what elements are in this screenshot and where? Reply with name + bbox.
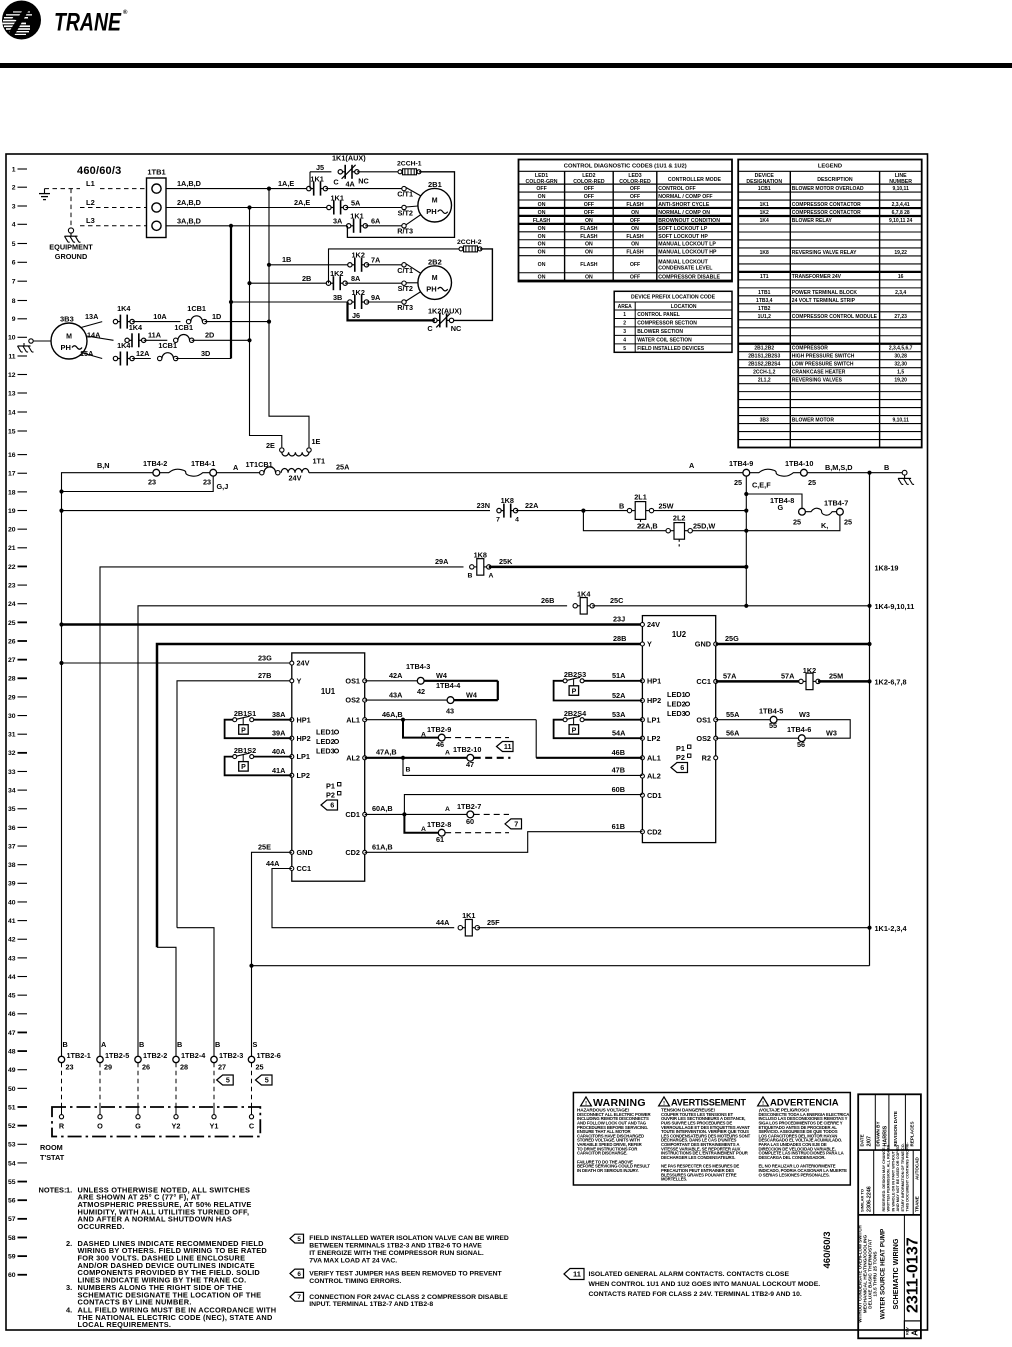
svg-text:9,10,11: 9,10,11: [892, 418, 909, 424]
junction 25M rail: [867, 679, 871, 683]
svg-text:2E: 2E: [266, 441, 275, 450]
motor 3B3 lead diagonals: [81, 322, 114, 359]
svg-text:61B: 61B: [612, 822, 625, 831]
wire 56A OS2: [716, 737, 799, 739]
svg-text:22A: 22A: [525, 501, 539, 510]
svg-text:B,M,S,D: B,M,S,D: [825, 463, 853, 472]
wire 38A: [254, 719, 292, 721]
svg-text:4: 4: [12, 222, 16, 229]
table: control diagnostic codes: [519, 160, 733, 282]
svg-text:26: 26: [8, 638, 16, 645]
contactor contact 1K1 line4: [347, 212, 368, 233]
junction 23G rail: [59, 661, 63, 665]
svg-text:29: 29: [104, 1063, 112, 1072]
svg-text:1TB2-2: 1TB2-2: [143, 1051, 167, 1060]
svg-text:5A: 5A: [351, 199, 361, 208]
svg-text:1TB4-2: 1TB4-2: [143, 459, 167, 468]
svg-text:1K1: 1K1: [310, 175, 323, 184]
svg-text:LOW PRESSURE SWITCH: LOW PRESSURE SWITCH: [792, 362, 854, 368]
terminal 1TB2-10: [453, 745, 481, 769]
pressure switch 2B2S4: [563, 709, 587, 734]
junction line3 phase B: [247, 205, 251, 209]
svg-text:B: B: [619, 502, 624, 511]
terminal block 1TB1: [147, 168, 167, 238]
svg-text:T'STAT: T'STAT: [40, 1153, 65, 1162]
svg-text:1E: 1E: [312, 437, 321, 446]
junction 25F right rail: [867, 926, 871, 930]
wire CD1 drop to 1TB2-8 row: [404, 814, 438, 832]
wire W4 loop vertical: [497, 681, 499, 700]
svg-text:SOFT LOCKOUT HP: SOFT LOCKOUT HP: [658, 234, 708, 240]
svg-text:2CCH-1,2: 2CCH-1,2: [753, 370, 775, 376]
svg-text:25: 25: [793, 518, 801, 527]
wire 23N: [62, 510, 491, 512]
svg-text:47B: 47B: [612, 766, 625, 775]
svg-text:1TB2-8: 1TB2-8: [427, 820, 451, 829]
svg-text:1K8: 1K8: [474, 551, 487, 560]
svg-text:45: 45: [8, 993, 16, 1000]
controller 1U2 terminals: [640, 620, 717, 836]
svg-text:1U2: 1U2: [672, 630, 687, 639]
svg-text:G: G: [135, 1122, 141, 1131]
svg-text:HP2: HP2: [647, 696, 661, 705]
svg-text:27: 27: [218, 1063, 226, 1072]
svg-text:REPLACES: REPLACES: [910, 1121, 915, 1146]
svg-text:TRANE: TRANE: [915, 1196, 920, 1212]
svg-text:FIELD INSTALLED DEVICES: FIELD INSTALLED DEVICES: [637, 346, 705, 352]
svg-text:52A: 52A: [612, 691, 626, 700]
svg-text:L3: L3: [86, 216, 95, 225]
svg-text:WHEN CONTROL 1U1 AND 1U2 GOES: WHEN CONTROL 1U1 AND 1U2 GOES INTO MANUA…: [589, 1281, 821, 1288]
svg-text:1,5: 1,5: [897, 370, 904, 376]
svg-text:2: 2: [623, 321, 626, 327]
svg-text:IN DEATH OR SERIOUS INJURY.: IN DEATH OR SERIOUS INJURY.: [577, 1168, 639, 1173]
motor 2B2 lead diagonals: [406, 264, 421, 301]
svg-text:COMPRESSOR: COMPRESSOR: [792, 346, 829, 352]
svg-text:A: A: [421, 826, 426, 833]
svg-text:BLOWER MOTOR OVERLOAD: BLOWER MOTOR OVERLOAD: [792, 186, 864, 192]
dashed field wire 1TB2-10 thick: [474, 757, 511, 759]
svg-text:51: 51: [8, 1104, 16, 1111]
motor 2B2: [418, 257, 452, 299]
wire 55A OS1: [716, 719, 771, 721]
terminal 1TB4-7: [824, 499, 852, 527]
pennant 7: [505, 819, 522, 829]
svg-text:1K4: 1K4: [760, 218, 769, 224]
junction 25G rail: [867, 642, 871, 646]
svg-text:!: !: [762, 1101, 764, 1107]
svg-text:1CB1: 1CB1: [758, 186, 771, 192]
junction right rail top: [867, 471, 871, 475]
svg-text:1TB4-1: 1TB4-1: [191, 459, 215, 468]
svg-text:NORMAL / COMP OFF: NORMAL / COMP OFF: [658, 194, 712, 200]
svg-text:25K: 25K: [499, 557, 513, 566]
terminal 1TB2-1: [58, 1040, 91, 1072]
svg-text:9A: 9A: [371, 293, 381, 302]
wire 1E drop: [269, 322, 309, 448]
svg-text:1TB2-3: 1TB2-3: [219, 1051, 243, 1060]
svg-text:2CCH-1: 2CCH-1: [397, 160, 422, 167]
svg-text:1K2(AUX): 1K2(AUX): [428, 306, 462, 315]
svg-text:CD1: CD1: [345, 810, 360, 819]
pressure switch 2B2S3: [563, 670, 586, 695]
svg-text:AND MAY NOT BE USED OR COPIED: AND MAY NOT BE USED OR COPIED: [896, 1145, 900, 1212]
svg-text:51A: 51A: [612, 671, 626, 680]
svg-text:7VA MAX LOAD AT 24 VAC.: 7VA MAX LOAD AT 24 VAC.: [309, 1257, 397, 1264]
svg-text:DRAWN BY: DRAWN BY: [876, 1121, 881, 1146]
svg-text:38: 38: [8, 862, 16, 869]
junction rail line18: [59, 489, 63, 493]
svg-text:CONTROL PANEL: CONTROL PANEL: [637, 312, 680, 318]
svg-text:2B1,2B2: 2B1,2B2: [754, 346, 774, 352]
phase riser C x231 thick: [230, 226, 232, 359]
svg-text:P: P: [572, 688, 577, 695]
terminal 1TB2-7: [457, 802, 481, 826]
wire 53A: [584, 719, 642, 721]
svg-text:25W: 25W: [659, 502, 674, 511]
svg-text:HP1: HP1: [297, 715, 311, 724]
svg-text:1TB2-10: 1TB2-10: [453, 745, 481, 754]
svg-text:1TB4-5: 1TB4-5: [759, 706, 783, 715]
pennant 6 in 1U2: [671, 763, 688, 773]
svg-text:GROUND: GROUND: [55, 252, 87, 261]
svg-text:2B2S4: 2B2S4: [564, 709, 587, 718]
wire 10A: [132, 321, 180, 323]
svg-text:46A,B: 46A,B: [382, 710, 403, 719]
svg-text:K,: K,: [821, 521, 828, 530]
svg-text:29: 29: [8, 694, 16, 701]
terminal 1TB4-1: [191, 459, 217, 486]
svg-text:GND: GND: [297, 848, 313, 857]
svg-text:R: R: [59, 1122, 65, 1131]
svg-text:30,28: 30,28: [894, 354, 907, 360]
phase riser B x249.5: [249, 208, 251, 341]
wire 7A to C/T1 2B2: [367, 264, 405, 266]
svg-text:16: 16: [8, 452, 16, 459]
contactor contact 1K1 line2: [307, 175, 328, 196]
svg-text:58: 58: [8, 1235, 16, 1242]
svg-text:1T1CB1: 1T1CB1: [246, 460, 273, 469]
wire L3 dashed: [80, 225, 146, 227]
terminal 1TB4-3: [406, 662, 430, 696]
svg-text:55: 55: [8, 1179, 16, 1186]
svg-text:BETWEEN TERMINALS 1TB2-3 AND 1: BETWEEN TERMINALS 1TB2-3 AND 1TB2-6 TO H…: [309, 1243, 482, 1250]
relay contact 1K4 line11: [113, 341, 134, 366]
svg-text:TRANE: TRANE: [54, 9, 122, 37]
wire W3 55: [777, 720, 850, 739]
svg-text:33: 33: [8, 769, 16, 776]
wire 8A to S/T2 2B2: [345, 282, 404, 284]
svg-text:20: 20: [8, 527, 16, 534]
pennant 11: [497, 742, 514, 752]
pressure switch 2B1S1: [233, 709, 256, 734]
svg-text:OCCURRED.: OCCURRED.: [78, 1222, 125, 1231]
terminal 1TB2-4: [173, 1040, 206, 1072]
svg-text:2B1S1: 2B1S1: [234, 709, 256, 718]
svg-text:28: 28: [180, 1063, 188, 1072]
crankcase heater 2CCH-1: [397, 160, 422, 175]
svg-text:5: 5: [226, 1076, 230, 1085]
wire heater to 2B1 loop right: [347, 172, 454, 238]
wire 23J thick: [62, 623, 643, 626]
svg-text:24: 24: [8, 601, 16, 608]
svg-text:43: 43: [446, 706, 454, 715]
svg-text:9,10,11: 9,10,11: [892, 186, 909, 192]
junction 23J rail: [59, 622, 63, 626]
svg-text:2L2: 2L2: [673, 514, 686, 523]
svg-text:AL2: AL2: [647, 772, 661, 781]
wire L2 dashed: [80, 207, 146, 209]
svg-text:1: 1: [12, 166, 16, 173]
svg-text:1TB2-4: 1TB2-4: [181, 1051, 206, 1060]
svg-text:WATER COIL SECTION: WATER COIL SECTION: [637, 338, 692, 344]
svg-text:OS1: OS1: [345, 676, 360, 685]
contactor contact 1K2 line8: [348, 288, 369, 309]
svg-text:C,E,F: C,E,F: [752, 481, 771, 490]
terminal 1TB2-3: [211, 1040, 244, 1072]
svg-text:A: A: [421, 732, 426, 739]
svg-text:7A: 7A: [371, 256, 381, 265]
wire W4 thick 43: [454, 699, 498, 701]
svg-text:CONTROL OFF: CONTROL OFF: [658, 186, 695, 192]
svg-text:A: A: [689, 461, 695, 470]
wire 1TB4-7 return: [746, 515, 840, 531]
svg-text:7: 7: [12, 279, 16, 286]
svg-text:1D: 1D: [212, 312, 221, 321]
wire 2D: [192, 339, 250, 341]
svg-text:PH: PH: [426, 285, 436, 294]
svg-text:25: 25: [256, 1063, 264, 1072]
svg-text:MANUAL LOCKOUT HP: MANUAL LOCKOUT HP: [658, 250, 717, 256]
svg-text:LP1: LP1: [297, 752, 310, 761]
svg-text:O SERIAS LESIONES PERSONALES.: O SERIAS LESIONES PERSONALES.: [759, 1172, 830, 1177]
svg-text:1K1: 1K1: [331, 193, 344, 202]
svg-text:5: 5: [623, 346, 626, 352]
svg-text:22A,B: 22A,B: [637, 521, 658, 530]
svg-text:3A: 3A: [333, 216, 343, 225]
wire line17 right to ground: [807, 472, 904, 474]
svg-text:25: 25: [844, 518, 852, 527]
svg-text:CD2: CD2: [647, 827, 662, 836]
svg-text:54: 54: [8, 1160, 16, 1167]
coil 1K4: [573, 589, 594, 614]
coil 2L1: [627, 493, 653, 527]
svg-text:P2: P2: [326, 791, 335, 800]
svg-text:DECHARGER LES CONDENSATEURS.: DECHARGER LES CONDENSATEURS.: [661, 1155, 735, 1160]
svg-text:M: M: [432, 198, 438, 205]
wire 25D,W: [692, 530, 746, 532]
junction 2B tap: [247, 281, 251, 285]
svg-text:2B1S2,2B2S4: 2B1S2,2B2S4: [748, 362, 780, 368]
svg-text:53: 53: [8, 1142, 16, 1149]
svg-text:60: 60: [466, 817, 474, 826]
svg-text:CONNECTION FOR 24VAC CLASS 2 C: CONNECTION FOR 24VAC CLASS 2 COMPRESSOR …: [309, 1294, 508, 1301]
svg-text:1K8-19: 1K8-19: [875, 564, 899, 573]
svg-text:HIGH PRESSURE SWITCH: HIGH PRESSURE SWITCH: [792, 354, 855, 360]
svg-text:OFF: OFF: [630, 262, 640, 268]
wire line3 2A,B,D: [166, 207, 329, 209]
thermostat terminals R O G Y2 Y1 C: [59, 1107, 255, 1131]
svg-text:BLOWER RELAY: BLOWER RELAY: [792, 218, 833, 224]
svg-text:25: 25: [8, 620, 16, 627]
svg-text:B: B: [468, 573, 473, 580]
svg-text:P: P: [241, 764, 246, 771]
svg-text:C: C: [333, 178, 339, 187]
svg-text:11: 11: [573, 1270, 581, 1279]
pressure switch 2B1S2: [233, 746, 256, 771]
svg-text:56: 56: [797, 740, 805, 749]
svg-text:1TB4-10: 1TB4-10: [785, 459, 813, 468]
svg-text:S/T2: S/T2: [398, 284, 413, 293]
svg-text:4A: 4A: [346, 180, 356, 189]
ground terminal right: [902, 470, 907, 475]
svg-text:AUTOCAD: AUTOCAD: [915, 1156, 920, 1180]
svg-text:1TB2-7: 1TB2-7: [457, 802, 481, 811]
junction 25C right rail: [867, 604, 871, 608]
svg-text:ON: ON: [538, 250, 546, 256]
wire 51A: [584, 680, 642, 682]
svg-text:44A: 44A: [436, 918, 450, 927]
svg-text:8: 8: [12, 298, 16, 305]
wire aux row 1K1: [310, 171, 331, 173]
junction line4 phase C: [229, 224, 233, 228]
svg-text:1TB4-9: 1TB4-9: [729, 459, 753, 468]
svg-text:2L1,2: 2L1,2: [758, 378, 771, 384]
junction 1TB4-8 branch: [744, 492, 748, 496]
svg-text:29A: 29A: [435, 557, 449, 566]
svg-text:G,J: G,J: [217, 482, 229, 491]
svg-text:14A: 14A: [87, 331, 101, 340]
relay contact 1K8 line19: [496, 496, 519, 524]
svg-text:46: 46: [8, 1011, 16, 1018]
svg-text:35: 35: [8, 806, 16, 813]
svg-text:!: !: [663, 1101, 665, 1107]
aux contact 1K1(AUX) NC: [332, 153, 369, 186]
svg-text:HP1: HP1: [647, 676, 661, 685]
wire 25G thick: [716, 643, 870, 646]
svg-text:25E: 25E: [258, 843, 271, 852]
svg-text:2D: 2D: [205, 331, 214, 340]
svg-text:SIMILAR TO: SIMILAR TO: [860, 1189, 865, 1212]
svg-text:LED3: LED3: [667, 709, 686, 718]
wire 6A to R/T3: [365, 225, 404, 227]
title block frame: [858, 1094, 922, 1338]
wire 40A: [254, 756, 292, 758]
svg-text:P: P: [241, 727, 246, 734]
svg-text:1K4: 1K4: [117, 341, 131, 350]
svg-text:LP2: LP2: [297, 771, 310, 780]
svg-text:1K2: 1K2: [803, 666, 816, 675]
svg-text:DEVICE PREFIX LOCATION CODE: DEVICE PREFIX LOCATION CODE: [631, 295, 716, 301]
svg-text:1K2: 1K2: [352, 288, 365, 297]
svg-text:1A,B,D: 1A,B,D: [177, 179, 201, 188]
svg-text:R2: R2: [702, 753, 711, 762]
wire aux to heater: [357, 171, 400, 173]
wire CD2 61A,B: [365, 832, 643, 853]
svg-text:LED1: LED1: [316, 728, 335, 737]
wire 1TB4-9 drop vertical x746: [745, 476, 747, 606]
svg-text:SOFT LOCKOUT LP: SOFT LOCKOUT LP: [658, 226, 708, 232]
svg-text:2,3,4: 2,3,4: [895, 290, 906, 296]
svg-text:4: 4: [623, 338, 626, 344]
svg-text:1.: 1.: [66, 1185, 72, 1194]
wire 2B1S1 loop to HP2: [225, 720, 292, 739]
svg-text:57: 57: [8, 1216, 16, 1223]
terminal 1TB4-4: [436, 681, 461, 715]
svg-text:3B: 3B: [333, 293, 342, 302]
svg-text:REVERSING VALVE RELAY: REVERSING VALVE RELAY: [792, 250, 857, 256]
svg-text:1A,E: 1A,E: [278, 179, 294, 188]
note pennant 11: [564, 1269, 820, 1299]
svg-text:Y2: Y2: [172, 1122, 181, 1131]
wire 1TB4-1 to 1T1CB1: [217, 472, 260, 474]
wire 25E: [252, 852, 292, 1059]
coil 2L2: [666, 514, 692, 547]
1U2 LED labels: [667, 690, 690, 718]
svg-text:28: 28: [8, 676, 16, 683]
field jumper 1TB4-9 to 1TB4-10: [750, 469, 801, 476]
svg-text:OFF: OFF: [536, 186, 546, 192]
wire 4A to C/T1: [326, 188, 405, 190]
svg-text:AREA: AREA: [618, 304, 633, 310]
svg-text:POWER TERMINAL BLOCK: POWER TERMINAL BLOCK: [792, 290, 858, 296]
svg-text:IN WHOLE OR IN PART WITHOUT: IN WHOLE OR IN PART WITHOUT: [891, 1150, 895, 1211]
svg-text:OS2: OS2: [345, 696, 360, 705]
svg-text:2B1S2: 2B1S2: [234, 746, 256, 755]
svg-text:COMPRESSOR CONTROL MODULE: COMPRESSOR CONTROL MODULE: [792, 314, 878, 320]
terminal 1TB4-6: [787, 725, 811, 749]
svg-text:44A: 44A: [266, 859, 280, 868]
svg-text:41: 41: [8, 918, 16, 925]
wire 60B row: [404, 795, 642, 815]
wire 22A: [516, 510, 629, 512]
svg-text:39A: 39A: [272, 729, 286, 738]
wire 42A: [365, 680, 418, 682]
wire heater 2CCH-2 to aux loop: [454, 249, 493, 321]
svg-text:60B: 60B: [612, 785, 625, 794]
contactor contact 1K1 line3: [327, 193, 348, 214]
svg-text:REVERSING VALVES: REVERSING VALVES: [792, 378, 843, 384]
svg-text:W3: W3: [799, 710, 810, 719]
svg-text:CONTROLLER MODE: CONTROLLER MODE: [668, 177, 722, 183]
svg-text:OS2: OS2: [696, 734, 711, 743]
svg-text:1K2: 1K2: [330, 269, 343, 278]
svg-text:CRANKCASE HEATER: CRANKCASE HEATER: [792, 370, 846, 376]
svg-text:P: P: [572, 727, 577, 734]
overload 1CB1 line11: [158, 341, 178, 361]
svg-text:6: 6: [12, 260, 16, 267]
dashed field wire 1TB2-7: [474, 813, 509, 815]
coil 1K2: [799, 666, 820, 690]
svg-text:2311-0137: 2311-0137: [905, 1237, 922, 1313]
note pennant 7: [290, 1292, 508, 1308]
relay contact 1K4 line10: [125, 323, 146, 348]
svg-text:PH: PH: [426, 207, 436, 216]
svg-text:34: 34: [8, 788, 16, 795]
terminal 1TB4-8: [770, 496, 805, 527]
junction CD1 tap: [402, 812, 406, 816]
svg-text:460/60/3: 460/60/3: [822, 1232, 833, 1269]
svg-text:52: 52: [8, 1123, 16, 1130]
wire 2E drop: [250, 340, 282, 447]
terminal 1TB2-6: [248, 1040, 281, 1072]
svg-text:8A: 8A: [351, 274, 361, 283]
svg-text:3.: 3.: [66, 1283, 72, 1292]
wire 44A from CC1: [272, 869, 454, 928]
wire line4 3A,B,D: [166, 225, 349, 227]
svg-text:47A,B: 47A,B: [376, 748, 397, 757]
svg-text:12A: 12A: [136, 349, 150, 358]
